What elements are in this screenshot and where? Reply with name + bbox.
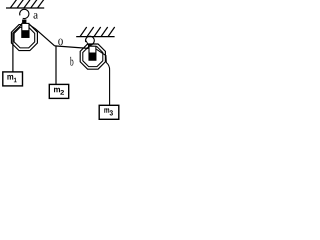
rope node 0 to pulley b (near-horizontal) [55,46,89,49]
ceiling support 2 (top-right) [76,27,115,37]
rope pulley a to node 0 (diagonal) [35,28,55,46]
pulley b outer wheel [80,44,105,69]
m1 subscript 1 [14,78,17,83]
m2 letter m [54,88,60,93]
pulley a outer wheel [11,25,37,51]
hook eye / knob a [22,20,26,24]
mass m1 box [3,72,23,86]
hook eye / knob b [88,46,93,49]
m2 subscript 2 [60,90,64,95]
rope over pulley b (left side mark) [86,41,89,46]
rope over pulley a (right side mark) [29,24,35,28]
m1 letter m [7,75,13,80]
rope pulley a to m1 (vertical) [12,33,14,73]
pulley a inner wheel [14,27,35,48]
m3 letter m [104,108,109,113]
rope over pulley b to m3 (diagonal then vertical) [97,49,110,105]
hook b [86,36,95,45]
m3 subscript 3 [110,110,113,115]
hook a [20,9,29,18]
ceiling support 1 (top-left) [6,0,44,8]
bracket b (axle mount) [89,46,96,60]
bracket a (axle mount) [22,23,29,37]
rope over pulley a (left side mark) [13,24,22,33]
pulley b inner wheel [83,47,103,67]
mass m2 box [49,84,68,98]
mass m3 box [99,105,119,119]
node 0 label [58,39,63,46]
rope node 0 to m2 (vertical) [55,46,57,84]
label a [34,13,38,18]
label b [70,57,73,66]
